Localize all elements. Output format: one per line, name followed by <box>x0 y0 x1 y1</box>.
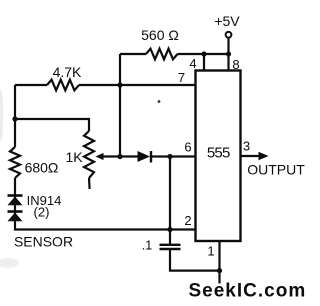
junction dot pin4 node <box>201 51 206 56</box>
svg-text:555: 555 <box>207 144 230 161</box>
wire 1K branch horizontal <box>15 119 89 131</box>
wire vertical junction C down to cap <box>169 157 171 245</box>
1K bottom free lead <box>88 178 91 189</box>
pin 8 stub <box>227 54 229 71</box>
junction dot wiper node <box>117 154 122 159</box>
wire pin 3 output <box>241 155 262 157</box>
svg-text:1: 1 <box>207 244 214 259</box>
scan smudge left edge <box>0 89 3 141</box>
svg-text:2: 2 <box>184 213 191 228</box>
arrowhead 1K wiper <box>96 153 104 160</box>
svg-text:6: 6 <box>184 140 191 155</box>
wire pin 7 <box>79 84 196 86</box>
svg-text:3: 3 <box>243 139 250 154</box>
junction dot pin1 ground node <box>217 268 222 273</box>
resistor 4.7K <box>47 80 79 91</box>
left rail to diode <box>14 178 16 195</box>
svg-text:OUTPUT: OUTPUT <box>247 161 305 177</box>
junction dot left rail / 1K branch <box>12 116 17 121</box>
resistor 560 ohm <box>146 49 178 60</box>
junction dot 560/4.7K/pin7 node <box>117 82 122 87</box>
wire +5V down <box>227 38 229 54</box>
ink speck <box>158 100 161 103</box>
svg-text:560 Ω: 560 Ω <box>141 27 179 43</box>
svg-text:SENSOR: SENSOR <box>14 233 73 249</box>
arrowhead output <box>259 152 269 160</box>
svg-text:8: 8 <box>232 57 239 72</box>
wire cap bottom to ground row <box>170 249 220 271</box>
diode IN914 lower <box>8 210 23 213</box>
wire top rail left segment <box>120 53 146 55</box>
junction dot +5V node <box>226 51 231 56</box>
scan smudge bottom left <box>0 258 19 268</box>
svg-text:680Ω: 680Ω <box>25 159 59 175</box>
potentiometer 1K <box>84 131 94 178</box>
svg-text:+5V: +5V <box>214 13 240 29</box>
diode IN914 upper <box>8 194 23 197</box>
svg-text:4.7K: 4.7K <box>53 64 82 80</box>
junction dot node D pin2 <box>167 227 172 232</box>
IC U1 555 timer box <box>196 71 241 242</box>
+5V terminal <box>226 32 232 38</box>
svg-text:1K: 1K <box>65 149 83 165</box>
1K wiper wire <box>102 155 138 157</box>
wire vertical from 560 corner down to wiper junction <box>119 54 121 157</box>
wire diode cathode to pin 6 <box>152 155 196 157</box>
pin 4 stub <box>203 54 205 71</box>
wire top rail right segment <box>178 53 229 55</box>
capacitor .1 bottom plate <box>160 248 181 250</box>
junction dot node C pin6 <box>167 154 172 159</box>
svg-text:.1: .1 <box>142 239 152 253</box>
svg-text:4: 4 <box>189 56 196 71</box>
capacitor .1 top plate <box>160 244 181 246</box>
svg-text:(2): (2) <box>34 205 50 220</box>
svg-text:7: 7 <box>178 70 185 85</box>
left rail upper <box>14 85 16 147</box>
diode D3 series <box>138 151 151 162</box>
svg-text:SeekIC.com: SeekIC.com <box>189 281 307 302</box>
resistor 680 ohm <box>10 147 20 178</box>
wire pin 1 <box>218 241 220 284</box>
wire pin 2 row <box>15 195 196 230</box>
wire 4.7K row left <box>15 84 47 86</box>
